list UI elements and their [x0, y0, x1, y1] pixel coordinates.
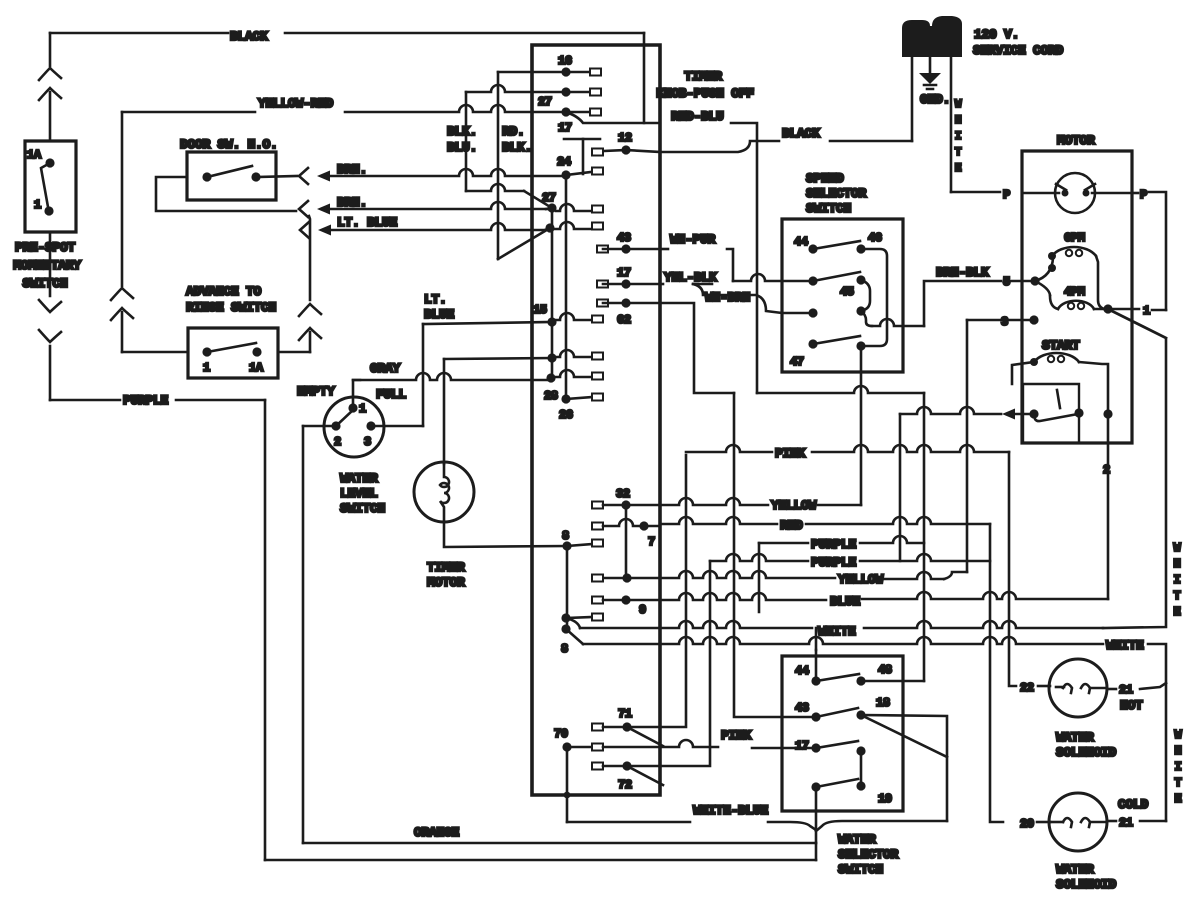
svg-text:ORANGE: ORANGE	[414, 825, 460, 840]
water selector pin 19	[856, 781, 865, 790]
connector arrow BRN2	[317, 204, 330, 215]
wire BLUE corner up to motor 2	[1107, 414, 1110, 599]
wire PINK row upper	[686, 445, 772, 452]
wire vertical 816 to bottom rail	[815, 843, 818, 860]
wire row 821 to funnel	[816, 821, 947, 831]
svg-text:1A: 1A	[249, 361, 264, 375]
wire pin18 row right corner	[861, 715, 947, 821]
svg-text:21: 21	[1119, 683, 1133, 697]
timer pin 24	[561, 170, 570, 179]
timer left bus 566	[565, 175, 568, 399]
wire LT BLUE vertical	[422, 324, 425, 426]
label YELLOW row	[626, 498, 768, 505]
water selector lever 43-18	[816, 708, 858, 717]
wire BLACK into timer top vertical	[643, 33, 646, 123]
svg-text:WATER: WATER	[838, 832, 876, 847]
wire pin72 to vertical 710	[627, 561, 710, 766]
motor 6PM lower dot	[1048, 264, 1056, 272]
connector arrow LT.BLUE	[318, 225, 331, 236]
svg-text:H: H	[1174, 557, 1181, 571]
connector female BRN1	[299, 168, 308, 184]
wire BRN2 row to timer pin 27b	[329, 202, 549, 209]
wire service left prong to black row	[911, 57, 914, 141]
svg-text:TIMER: TIMER	[684, 69, 722, 84]
svg-text:21: 21	[1119, 816, 1133, 830]
wire BLUE row	[626, 593, 826, 600]
svg-text:PRE-SPOT: PRE-SPOT	[15, 240, 76, 255]
wire BRN-BLK from R3	[861, 311, 872, 326]
svg-text:17: 17	[617, 266, 631, 280]
connector female LT.BLUE	[300, 222, 309, 238]
wire pin44w up to white1	[815, 650, 818, 681]
wire WHITE-BLUE row	[567, 821, 690, 824]
svg-text:17: 17	[558, 121, 572, 135]
water level switch circle	[324, 397, 384, 457]
timer pin 12 wire red-blu	[566, 112, 660, 123]
svg-text:BLU.: BLU.	[447, 140, 477, 155]
hot water solenoid circle	[1049, 659, 1107, 717]
wire white service vertical	[950, 57, 953, 192]
timer pin 26	[561, 394, 570, 403]
wire pin48w right corner up	[861, 680, 924, 683]
wire WHITE1 row	[566, 618, 580, 628]
svg-text:RD.: RD.	[502, 124, 525, 139]
wire 4 row with arrow	[1014, 413, 1034, 416]
120V service cord plug	[902, 16, 962, 57]
wire chevrons to PURPLE corner	[49, 346, 52, 400]
wire WLS pin2 vertical down to ORANGE row	[302, 426, 305, 843]
connector chevrons on advance right drop	[299, 304, 321, 316]
timer pin 15	[547, 317, 556, 326]
svg-text:BLACK: BLACK	[782, 126, 820, 141]
speed selector pin 46	[856, 244, 865, 253]
wire vertical 967 up to motor 3 row	[966, 320, 969, 572]
svg-text:27: 27	[538, 95, 552, 109]
switch lever pre-spot	[41, 163, 50, 207]
speed selector lever 47	[813, 336, 860, 344]
wire timer motor top vertical	[443, 359, 446, 464]
svg-text:BRN-BLK: BRN-BLK	[936, 265, 989, 280]
svg-text:SWITCH: SWITCH	[806, 201, 851, 216]
svg-text:MOTOR: MOTOR	[1057, 133, 1095, 148]
timer pin 8c	[561, 624, 570, 633]
svg-text:120 V.: 120 V.	[974, 27, 1019, 42]
wire RED corner down to cold solenoid	[990, 524, 1003, 822]
water selector pin R3w	[856, 746, 865, 755]
wire pin70 vertical down to white-blue row	[566, 747, 569, 822]
timer pin 62	[597, 300, 608, 307]
svg-text:T: T	[955, 147, 962, 159]
svg-text:RED: RED	[780, 518, 803, 533]
wire WH-PUR to speed selector	[660, 248, 668, 251]
water selector pin BL	[811, 782, 820, 791]
wire pin12 black row	[660, 141, 779, 152]
wire ORANGE row	[303, 842, 816, 845]
speed selector lever 44-46	[813, 241, 860, 249]
svg-text:T: T	[1175, 776, 1182, 790]
speed selector switch box	[782, 219, 903, 372]
timer pin 2x diagonal from vertical B	[498, 228, 550, 259]
wire rd-blk vertical B	[497, 72, 500, 259]
svg-text:PINK: PINK	[721, 728, 752, 743]
svg-text:WH-PUR: WH-PUR	[670, 232, 716, 247]
pre-spot momentary switch box	[25, 141, 76, 232]
wire chevron to pre-spot box	[49, 92, 52, 141]
svg-text:COLD: COLD	[1118, 797, 1149, 812]
svg-text:SWITCH: SWITCH	[22, 276, 67, 291]
svg-text:SWITCH: SWITCH	[838, 862, 883, 877]
speed selector pin R3	[856, 306, 865, 315]
svg-text:I: I	[1174, 573, 1181, 587]
svg-text:H: H	[955, 115, 961, 127]
wire pin71 corner up vertical 686	[627, 455, 686, 727]
wire PURPLE1 row	[759, 542, 808, 545]
wire from BRN2 connector down to advance switch	[309, 216, 310, 300]
svg-text:BRN.: BRN.	[337, 162, 367, 177]
svg-text:LEVEL: LEVEL	[340, 486, 378, 501]
water level switch terminal 1	[348, 403, 357, 412]
wire PURPLE2 row	[710, 554, 808, 561]
svg-text:16: 16	[558, 54, 572, 68]
advance switch terminal 1A	[252, 347, 261, 356]
connector chevrons on yellow-red drop	[111, 288, 133, 300]
wire YELLOW-RED row	[122, 111, 255, 114]
speed selector pin 45	[856, 275, 865, 284]
timer pin 27b	[547, 203, 556, 212]
svg-text:W: W	[955, 99, 962, 111]
connector arrow BRN1	[317, 171, 330, 182]
speed selector pin 44	[808, 244, 817, 253]
timer motor circle	[414, 462, 474, 522]
svg-text:7: 7	[648, 535, 655, 549]
svg-text:2: 2	[1103, 463, 1110, 477]
speed selector lever L2-45	[813, 272, 860, 281]
svg-text:1A: 1A	[27, 148, 42, 162]
water level switch terminal 2	[331, 421, 340, 430]
start switch actuator	[1057, 390, 1060, 408]
wire pin18 diagonal	[861, 715, 947, 757]
wire WHITE1 to motor corner	[1103, 309, 1166, 628]
svg-text:4PM: 4PM	[1064, 285, 1085, 299]
water selector pin 43	[811, 712, 820, 721]
motor terminal 1 junction	[1103, 304, 1112, 313]
timer knob T contact	[564, 138, 600, 141]
svg-text:WHITE-BLUE: WHITE-BLUE	[693, 803, 769, 818]
svg-text:22: 22	[1020, 681, 1034, 695]
wire WLS pin2 to left vertical	[303, 425, 336, 428]
wire GRAY row to timer pin 28	[353, 373, 551, 380]
speed selector link 45 to R3	[861, 280, 870, 311]
water selector lever bottom	[816, 779, 858, 787]
svg-text:SELECTOR: SELECTOR	[838, 847, 899, 862]
svg-text:5: 5	[1003, 275, 1010, 289]
svg-text:43: 43	[795, 701, 809, 715]
wire gnd drop	[929, 57, 932, 73]
svg-text:20: 20	[1020, 817, 1034, 831]
wire motor 1 diagonal white down	[1108, 309, 1166, 338]
svg-text:62: 62	[617, 313, 631, 327]
svg-text:START: START	[1042, 338, 1080, 353]
svg-text:8: 8	[561, 642, 568, 656]
svg-text:BLK.: BLK.	[502, 140, 532, 155]
timer pin 71	[592, 724, 603, 731]
svg-text:1: 1	[34, 198, 41, 212]
water selector pin 48	[856, 676, 865, 685]
timer pin 16	[498, 71, 566, 74]
svg-text:TIMER: TIMER	[427, 560, 465, 575]
motor protector contacts	[1062, 190, 1069, 197]
wire bottom rail row	[265, 859, 816, 862]
wire start coil right to switch	[1079, 362, 1108, 414]
svg-text:46: 46	[868, 231, 882, 245]
wire PINK corner down to hot solenoid 22	[1009, 452, 1016, 686]
wire WHITE2 corner down right rail	[1148, 644, 1166, 821]
svg-text:W: W	[1174, 541, 1182, 555]
svg-text:WATER: WATER	[1056, 862, 1094, 877]
svg-text:WH-BRN: WH-BRN	[705, 290, 750, 305]
timer pin 72 blade	[627, 766, 663, 785]
svg-text:48: 48	[878, 663, 892, 677]
wire WLS pin1 GRAY up	[353, 380, 360, 408]
wire pre-spot drop from BLACK	[49, 33, 52, 66]
svg-text:HOT: HOT	[1120, 698, 1143, 713]
wire YELLOW-RED corner	[121, 112, 124, 286]
wire below pre-spot switch	[49, 232, 52, 296]
svg-text:E: E	[1175, 792, 1182, 806]
motor protector circle	[1055, 173, 1095, 213]
svg-text:P: P	[1003, 188, 1010, 202]
door switch box	[187, 152, 276, 200]
ground symbol	[919, 73, 941, 84]
start switch lever	[1034, 414, 1078, 421]
svg-text:SERVICE CORD: SERVICE CORD	[973, 43, 1064, 58]
wire motor 3 terminal	[1029, 315, 1038, 324]
wire RED-BLU out to corner	[731, 123, 757, 393]
wire PURPLE row	[50, 399, 120, 402]
timer pin 17 upper	[561, 107, 570, 116]
svg-text:44: 44	[794, 235, 808, 249]
svg-text:PURPLE: PURPLE	[123, 393, 169, 408]
svg-text:YELLOW-RED: YELLOW-RED	[258, 96, 334, 111]
motor 6PM coil	[1048, 252, 1056, 260]
timer pin 9	[592, 597, 603, 604]
timer pin 32	[592, 502, 603, 509]
svg-text:15: 15	[533, 303, 547, 317]
speed selector link 46 rail	[861, 249, 887, 346]
svg-text:18: 18	[876, 696, 890, 710]
svg-text:2: 2	[334, 435, 341, 449]
svg-text:3: 3	[1001, 315, 1008, 329]
svg-text:H: H	[1175, 744, 1182, 758]
svg-text:SELECTOR: SELECTOR	[806, 186, 867, 201]
svg-text:GRAY: GRAY	[370, 361, 401, 376]
svg-text:SOLENOID: SOLENOID	[1056, 745, 1117, 760]
svg-text:SWITCH: SWITCH	[340, 501, 385, 516]
svg-text:PURPLE: PURPLE	[811, 555, 857, 570]
water level switch lever	[336, 411, 352, 426]
svg-text:BLUE: BLUE	[424, 307, 455, 322]
svg-text:43: 43	[617, 231, 631, 245]
svg-text:32: 32	[616, 487, 630, 501]
speed selector pin L3	[808, 308, 817, 317]
svg-text:1: 1	[359, 402, 366, 416]
wire PINK2 row pin70 to water selector 17	[603, 740, 718, 747]
timer bus 567 down	[566, 546, 569, 629]
timer pin 28	[546, 373, 555, 382]
wire P right to white corner	[1132, 192, 1138, 195]
water selector lever 44-48	[816, 674, 859, 681]
svg-text:44: 44	[795, 664, 809, 678]
wire vertical 759 down	[758, 543, 761, 612]
speed selector pin 47	[808, 339, 817, 348]
timer pin 8a	[562, 541, 571, 550]
svg-text:GND.: GND.	[920, 92, 950, 107]
svg-text:YELLOW: YELLOW	[838, 572, 884, 587]
svg-text:28: 28	[544, 389, 558, 403]
svg-text:12: 12	[618, 131, 632, 145]
timer bus 626	[625, 505, 628, 578]
svg-text:RINSE SWITCH: RINSE SWITCH	[186, 300, 276, 315]
wire blk-blu vertical A	[465, 92, 468, 191]
svg-text:BLK.: BLK.	[447, 124, 477, 139]
svg-text:E: E	[1174, 605, 1181, 619]
timer pin 70	[562, 742, 571, 751]
hot solenoid coil	[1056, 686, 1064, 689]
svg-text:PURPLE: PURPLE	[811, 537, 857, 552]
svg-text:KNOB-PUSH OFF: KNOB-PUSH OFF	[656, 86, 754, 101]
advance to rinse switch box	[188, 328, 278, 378]
connector chevrons below pre-spot	[39, 300, 61, 312]
cold water solenoid circle	[1049, 793, 1107, 851]
svg-text:P: P	[1140, 188, 1147, 202]
wire vertical A elbow to pin 27b diagonal	[466, 184, 524, 191]
wire pin62 corner down	[660, 303, 734, 393]
connector female BRN2	[299, 201, 308, 217]
wire YELLOW2 row	[622, 573, 631, 582]
advance switch lever	[207, 343, 256, 352]
wire motor 3 row from vertical 967	[967, 319, 1008, 322]
svg-text:FULL: FULL	[376, 387, 407, 402]
svg-text:WHITE: WHITE	[818, 624, 856, 639]
svg-text:WHITE: WHITE	[1106, 638, 1144, 653]
terminal 1 of pre-spot switch	[44, 206, 53, 215]
wire door switch left loop	[156, 177, 296, 211]
wire speed selector 48 vertical to yellow	[860, 346, 863, 505]
svg-text:MOTOR: MOTOR	[427, 575, 465, 590]
wire WHITE2 row	[566, 629, 583, 644]
timer pin 43	[597, 246, 608, 253]
svg-text:27: 27	[542, 191, 556, 205]
wire timer motor bottom to pin 8	[444, 522, 567, 547]
start switch terminal 4	[1029, 409, 1038, 418]
svg-text:RED-BLU: RED-BLU	[671, 109, 724, 124]
wire 5 row	[1008, 280, 1035, 283]
water selector switch box	[782, 656, 903, 811]
timer pin 8b	[561, 613, 570, 622]
motor box	[1022, 151, 1132, 443]
water selector pin 44	[811, 676, 820, 685]
svg-text:SOLENOID: SOLENOID	[1056, 877, 1117, 892]
svg-text:WATER: WATER	[1056, 730, 1094, 745]
wire P row through protector	[1022, 192, 1059, 195]
svg-text:EMPTY: EMPTY	[297, 384, 335, 399]
timer block outline	[532, 45, 660, 795]
wire chevrons to advance switch	[121, 312, 124, 352]
advance switch terminal 1	[202, 347, 211, 356]
wire LT BLUE row to timer pin 15	[423, 322, 552, 324]
timer pin 2x	[545, 223, 554, 232]
wire RED row	[660, 517, 777, 524]
wire BLACK top-left run	[50, 32, 228, 35]
door switch lever	[207, 166, 252, 177]
svg-text:1: 1	[203, 361, 210, 375]
wire row 393 red-blu link	[757, 386, 924, 393]
water level switch terminal 3	[366, 421, 375, 430]
wire vertical 900 start4 to purple2	[899, 414, 902, 561]
water selector lever 17	[816, 741, 858, 748]
svg-text:SPEED: SPEED	[806, 171, 844, 186]
speed selector pin L2	[808, 276, 817, 285]
wire pin BL down through funnel to orange corner	[815, 787, 818, 843]
svg-text:BLACK: BLACK	[230, 29, 268, 44]
cold solenoid coil	[1050, 821, 1063, 824]
water selector pin 17	[811, 743, 820, 752]
svg-text:YELLOW: YELLOW	[771, 498, 817, 513]
svg-text:DOOR SW. N.O.: DOOR SW. N.O.	[180, 137, 278, 152]
svg-text:45: 45	[840, 285, 854, 299]
connector chevrons above pre-spot switch	[39, 68, 61, 80]
wire cold solenoid right row 21	[1107, 820, 1116, 823]
door switch terminals	[202, 172, 211, 181]
start switch right terminal 2	[1103, 409, 1112, 418]
timer pin 27 upper	[466, 85, 566, 92]
svg-text:LT. BLUE: LT. BLUE	[337, 215, 398, 230]
timer pin 72	[592, 763, 603, 770]
wire hot solenoid right row 21	[1107, 688, 1116, 691]
timer pin 71 blade	[627, 727, 663, 746]
timer pin 17b	[597, 281, 608, 288]
svg-text:24: 24	[557, 155, 571, 169]
svg-text:BLUE: BLUE	[830, 594, 861, 609]
svg-text:ADVANCE TO: ADVANCE TO	[186, 284, 262, 299]
timer left bus 552	[551, 208, 554, 378]
svg-text:W: W	[1175, 728, 1183, 742]
svg-text:MOMENTARY: MOMENTARY	[13, 258, 81, 273]
svg-text:47: 47	[790, 355, 804, 369]
svg-text:BRN.: BRN.	[337, 195, 367, 210]
wire door switch right to connector	[256, 176, 297, 177]
svg-text:9: 9	[639, 603, 646, 617]
svg-text:1: 1	[1143, 304, 1150, 318]
water selector pin 18	[856, 710, 865, 719]
wire LT.BLUE stub row to timer pin	[330, 223, 548, 230]
wire PURPLE vertical to bottom rail	[264, 400, 267, 860]
wire WLS pin3 to LT BLUE corner	[371, 425, 423, 428]
svg-text:T: T	[1174, 589, 1181, 603]
svg-text:3: 3	[364, 435, 371, 449]
svg-text:6PM: 6PM	[1064, 231, 1085, 245]
svg-text:I: I	[1175, 760, 1182, 774]
svg-text:70: 70	[554, 727, 568, 741]
timer motor coil	[440, 464, 449, 522]
wire YEL-BLK jog row	[660, 283, 663, 286]
wire BRN1 row to timer pin 24	[329, 169, 566, 176]
svg-text:WATER: WATER	[340, 471, 378, 486]
svg-text:PINK: PINK	[775, 446, 806, 461]
wire start coil left loop	[1012, 362, 1034, 384]
motor start coil	[1030, 358, 1038, 366]
svg-text:71: 71	[618, 707, 632, 721]
